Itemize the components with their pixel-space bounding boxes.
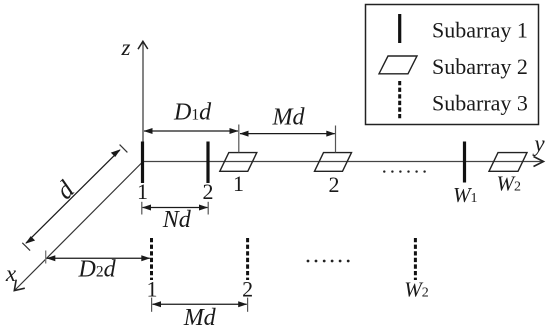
legend box xyxy=(366,5,539,125)
d tick lower xyxy=(22,243,30,251)
dashed subarray3 W2 xyxy=(414,238,417,280)
y-axis (main horizontal line) xyxy=(143,157,544,167)
svg-text:Md: Md xyxy=(272,105,306,131)
dimension arrow Md top xyxy=(240,131,336,137)
d tick upper xyxy=(120,145,128,153)
dots on lower row xyxy=(307,260,350,263)
dimension arrow Md bottom xyxy=(152,301,247,307)
svg-text:d: d xyxy=(50,174,80,204)
svg-text:D1d: D1d xyxy=(173,100,212,126)
svg-text:1: 1 xyxy=(233,171,244,196)
D2d tick on x-axis xyxy=(45,251,47,264)
Nd tick left xyxy=(141,202,143,215)
dimension arrow d (diagonal) xyxy=(25,149,120,244)
svg-text:W1: W1 xyxy=(453,183,478,207)
svg-text:2: 2 xyxy=(203,179,214,204)
parallelogram subarray2 no.1 xyxy=(220,153,257,172)
Nd tick right xyxy=(207,202,209,215)
svg-text:z: z xyxy=(121,35,131,60)
dots on main row xyxy=(383,170,426,172)
tick above parallelogram 2 xyxy=(335,126,337,153)
svg-text:1: 1 xyxy=(137,179,148,204)
subarray1 bar 1 xyxy=(141,142,144,184)
parallelogram subarray2 W2 xyxy=(489,153,527,172)
legend bar symbol xyxy=(398,14,401,43)
z-axis xyxy=(138,41,148,161)
svg-text:x: x xyxy=(5,261,17,286)
svg-text:D2d: D2d xyxy=(78,257,117,283)
svg-text:Nd: Nd xyxy=(162,207,192,233)
subarray1 bar 2 xyxy=(206,142,209,184)
Md bottom tick right xyxy=(247,298,249,312)
dimension arrow Nd xyxy=(142,205,208,211)
svg-text:y: y xyxy=(532,131,545,156)
legend dashed symbol xyxy=(398,81,401,120)
subarray1 bar W1 xyxy=(463,142,466,183)
svg-text:W2: W2 xyxy=(497,172,522,196)
x-axis xyxy=(14,162,143,291)
tick above parallelogram 1 xyxy=(238,125,240,153)
dimension arrow D1d xyxy=(144,128,239,134)
svg-text:2: 2 xyxy=(329,172,340,197)
parallelogram subarray2 no.2 xyxy=(315,153,352,172)
Md bottom tick left xyxy=(151,298,153,312)
svg-text:Md: Md xyxy=(183,305,217,331)
dimension arrow D2d xyxy=(46,255,150,261)
svg-text:W2: W2 xyxy=(404,278,429,302)
legend parallelogram symbol xyxy=(379,56,417,74)
svg-text:Subarray 2: Subarray 2 xyxy=(432,54,528,79)
dashed subarray3 no.2 xyxy=(246,238,249,280)
svg-text:Subarray 3: Subarray 3 xyxy=(432,91,528,116)
dashed subarray3 no.1 xyxy=(150,238,153,280)
svg-text:Subarray 1: Subarray 1 xyxy=(432,17,528,42)
